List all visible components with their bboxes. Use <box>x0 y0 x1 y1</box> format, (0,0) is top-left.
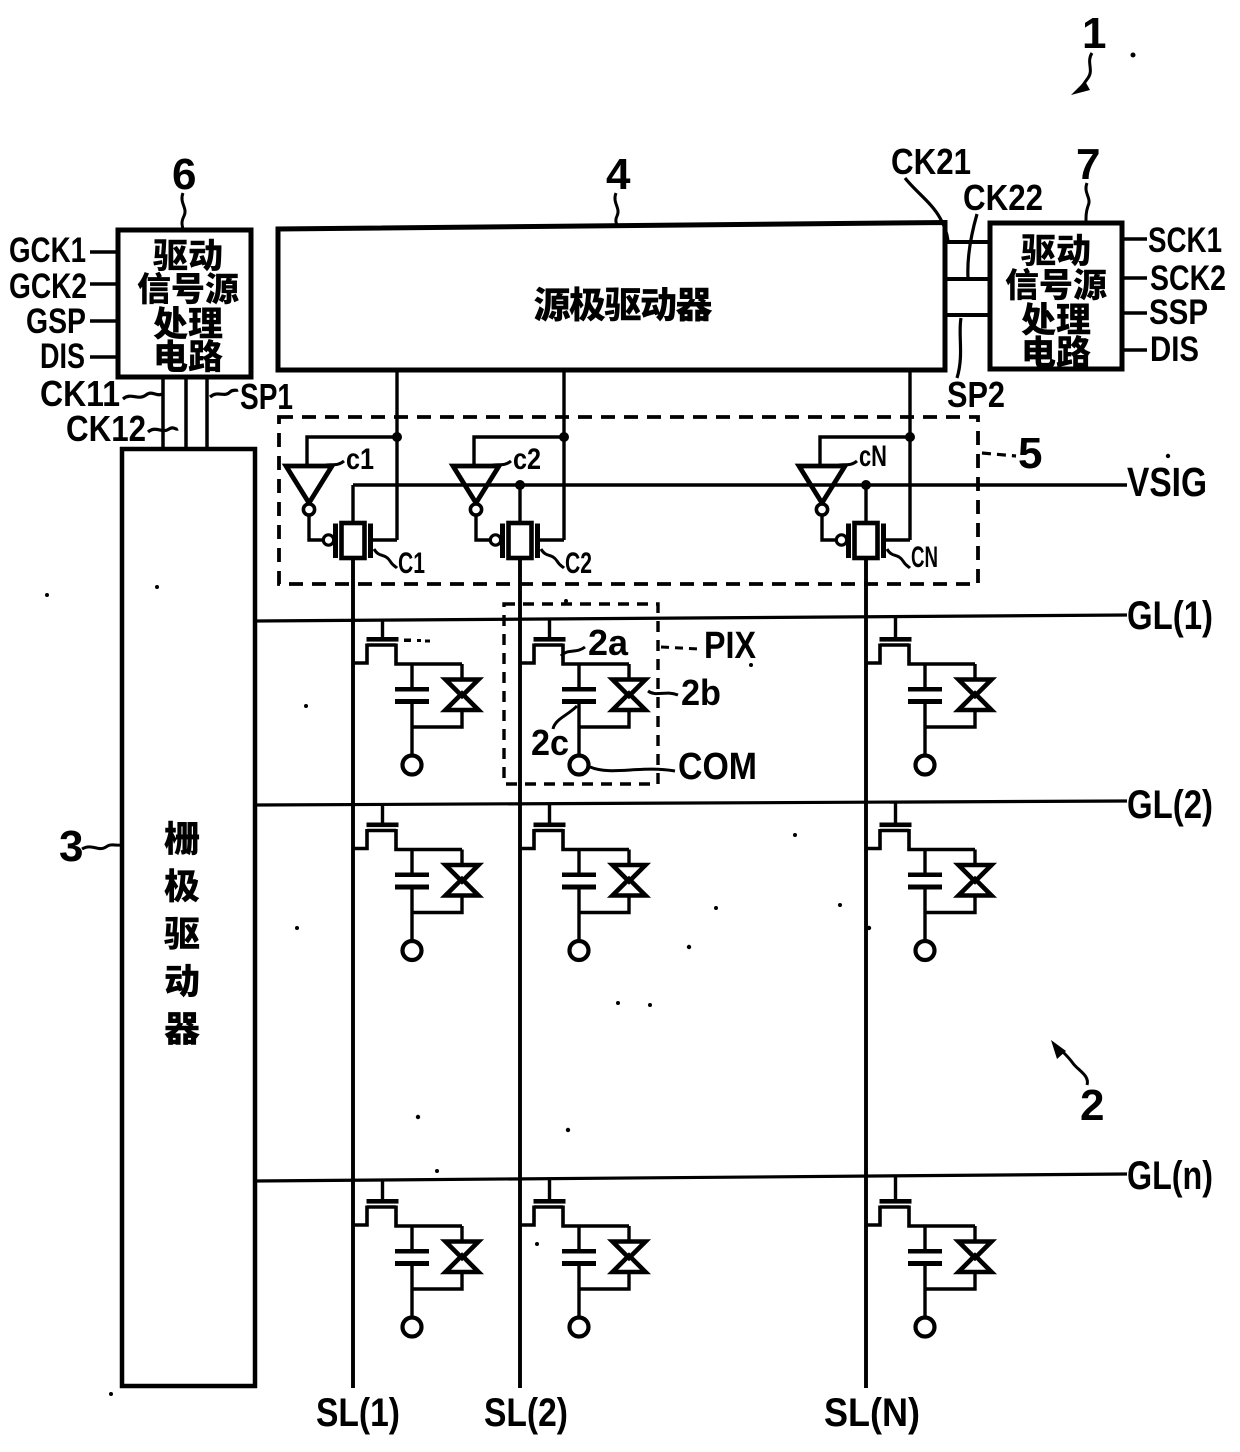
inverter buffer cN triangle <box>799 466 845 503</box>
storage cap P21 bottom lead <box>410 890 413 941</box>
pixel TFT P12 gate stub <box>548 618 551 638</box>
switch c2 gate bubble <box>490 535 500 545</box>
pixel TFT P1N source wire <box>866 644 880 664</box>
svg-text:SP2: SP2 <box>947 374 1005 415</box>
leader from 7 to U7 <box>1086 183 1089 221</box>
pixel TFT PnN channel bar <box>880 1205 909 1208</box>
pixel TFT P11 channel bar <box>367 643 396 646</box>
source driver U4 (box 4) <box>278 223 945 371</box>
pixel TFT P11 gate bar <box>367 637 399 642</box>
storage cap P1N bottom plate <box>908 699 942 704</box>
storage cap P1N top lead <box>923 664 926 687</box>
source line SL(N) <box>864 558 868 1388</box>
inverter c1 output bubble <box>303 504 314 515</box>
svg-text:C1: C1 <box>398 547 425 580</box>
analog switch C1 left bar <box>333 524 338 559</box>
svg-text:1: 1 <box>1082 9 1106 58</box>
liquid crystal P11 lower triangle <box>446 694 479 711</box>
svg-text:6: 6 <box>172 150 196 199</box>
wire from U4 to sampler c2 <box>562 370 565 540</box>
pixel TFT P1N drain wire <box>909 644 975 665</box>
liquid crystal P21 top lead <box>460 850 463 864</box>
inverter cN output bubble <box>816 504 827 515</box>
leader C1 <box>374 549 397 568</box>
svg-text:3: 3 <box>59 822 83 871</box>
svg-text:DIS: DIS <box>1150 330 1199 369</box>
leader CN <box>887 549 910 568</box>
analog switch CN right bar <box>881 524 886 559</box>
svg-text:GCK2: GCK2 <box>9 267 87 306</box>
U4 text <box>534 287 570 322</box>
svg-text:CK12: CK12 <box>66 408 146 449</box>
storage cap P22 top lead <box>577 850 580 873</box>
COM terminal Pn2 <box>570 1318 589 1337</box>
leader from 4 to U4 <box>615 193 618 226</box>
wire inverter to switch gate c2 <box>476 515 489 540</box>
U7 text line1 <box>1021 234 1055 266</box>
leader CK11 <box>123 393 162 399</box>
node dot c1 drive <box>392 432 402 442</box>
svg-text:2a: 2a <box>588 622 629 663</box>
U3 text vertical <box>164 821 199 855</box>
pixel TFT P21 channel bar <box>367 829 396 832</box>
svg-text:CN: CN <box>911 541 938 574</box>
U6 text line1 <box>153 239 187 271</box>
wire VSIG to switch C2 <box>518 485 521 523</box>
inverter c2 output bubble <box>470 504 481 515</box>
pixel TFT P12 gate bar <box>534 637 566 642</box>
analog switch CN left bar <box>846 524 851 559</box>
pin SSP lead <box>1122 311 1147 315</box>
storage cap Pn1 top plate <box>395 1249 429 1254</box>
svg-text:COM: COM <box>678 746 757 788</box>
liquid crystal Pn1 lower triangle <box>446 1256 479 1273</box>
liquid crystal P1N lower triangle <box>959 694 992 711</box>
svg-text:c2: c2 <box>513 443 541 476</box>
storage cap P21 top plate <box>395 873 429 878</box>
storage cap P12 top plate <box>562 687 596 692</box>
storage cap P22 top plate <box>562 873 596 878</box>
liquid crystal P22 top lead <box>627 850 630 864</box>
storage cap PnN bottom plate <box>908 1261 942 1266</box>
U7 text line3 <box>1022 302 1056 336</box>
pixel TFT P12 drain wire <box>563 644 629 665</box>
storage cap P21 bottom plate <box>395 885 429 890</box>
analog switch CN channel box <box>855 523 878 558</box>
svg-text:SL(2): SL(2) <box>484 1391 568 1435</box>
storage cap P12 bottom lead <box>577 704 580 755</box>
liquid crystal Pn2 top lead <box>627 1226 630 1240</box>
pixel TFT P21 gate bar <box>367 823 399 828</box>
COM terminal P1N <box>916 756 935 775</box>
liquid crystal P12 upper triangle <box>613 680 646 697</box>
pixel TFT Pn2 channel bar <box>534 1205 563 1208</box>
pixel TFT Pn1 channel bar <box>367 1205 396 1208</box>
pixel TFT P21 source wire <box>353 829 367 849</box>
pixel TFT P2N drain wire <box>909 829 975 850</box>
liquid crystal P21 bottom lead <box>412 898 462 913</box>
leader from 3 to U3 <box>82 845 120 849</box>
COM terminal P22 <box>570 941 589 960</box>
liquid crystal P22 bottom lead <box>579 898 629 913</box>
node dot c2 drive <box>559 432 569 442</box>
feedback wire c2 <box>474 437 564 465</box>
inverter buffer c2 triangle <box>453 466 499 503</box>
liquid crystal P11 top lead <box>460 664 463 678</box>
bus rung CK21 <box>945 240 990 244</box>
svg-text:CK21: CK21 <box>891 141 971 182</box>
pin DIS lead <box>90 355 117 359</box>
bus wire SP1 <box>205 377 209 449</box>
pixel TFT P12 source wire <box>520 644 534 664</box>
leader dashes to PIX <box>661 647 699 649</box>
speck marks <box>404 639 430 643</box>
liquid crystal P1N upper triangle <box>959 680 992 697</box>
bus wire CK12 <box>184 377 188 449</box>
leader 2a <box>561 647 585 656</box>
svg-text:GL(1): GL(1) <box>1127 594 1213 638</box>
pixel TFT P2N gate stub <box>894 801 897 823</box>
liquid crystal P1N bottom lead <box>925 712 975 727</box>
svg-text:DIS: DIS <box>40 337 85 376</box>
wire switch CN to drive line <box>886 538 910 541</box>
leader c2 <box>489 461 511 467</box>
storage cap P11 top lead <box>410 664 413 687</box>
analog switch C2 channel box <box>509 523 532 558</box>
storage cap P22 bottom plate <box>562 885 596 890</box>
storage cap P1N top plate <box>908 687 942 692</box>
wire VSIG to switch CN <box>864 485 867 523</box>
pixel TFT P22 source wire <box>520 829 534 849</box>
storage cap P12 top lead <box>577 664 580 687</box>
storage cap P22 bottom lead <box>577 890 580 941</box>
leader cN <box>835 461 857 467</box>
pixel dashed box PIX <box>504 604 658 784</box>
leader SP2 <box>957 318 961 378</box>
leader 2c <box>553 706 577 729</box>
pixel TFT Pn1 gate bar <box>367 1199 399 1204</box>
leader CK22 <box>968 214 977 278</box>
pixel TFT Pn1 drain wire <box>396 1206 462 1227</box>
U6 text line2 <box>138 272 170 305</box>
storage cap P2N top plate <box>908 873 942 878</box>
pixel TFT P22 gate bar <box>534 823 566 828</box>
bus rung SP2 <box>945 313 990 317</box>
wire inverter to switch gate cN <box>822 515 835 540</box>
pixel TFT PnN source wire <box>866 1206 880 1226</box>
pin GCK2 lead <box>90 282 117 286</box>
pixel TFT P22 gate stub <box>548 803 551 824</box>
liquid crystal P2N top lead <box>973 850 976 864</box>
VSIG line <box>353 483 1127 486</box>
COM terminal P21 <box>403 941 422 960</box>
storage cap P2N bottom lead <box>923 890 926 941</box>
svg-text:PIX: PIX <box>704 625 757 667</box>
liquid crystal P22 upper triangle <box>613 865 646 882</box>
pin SCK1 lead <box>1122 237 1147 241</box>
pixel TFT Pn1 gate stub <box>381 1179 384 1200</box>
liquid crystal Pn1 top lead <box>460 1226 463 1240</box>
pixel TFT P11 gate stub <box>381 619 384 638</box>
storage cap Pn2 bottom lead <box>577 1266 580 1317</box>
liquid crystal P2N lower triangle <box>959 879 992 896</box>
leader 2b <box>648 691 678 695</box>
analog switch C1 right bar <box>368 524 373 559</box>
leader from 6 to U6 <box>182 193 185 229</box>
U7 text line2 <box>1006 268 1038 301</box>
liquid crystal PnN top lead <box>973 1226 976 1240</box>
svg-text:VSIG: VSIG <box>1127 459 1207 505</box>
liquid crystal P1N top lead <box>973 664 976 678</box>
pixel TFT P12 channel bar <box>534 643 563 646</box>
wire from U4 to sampler c1 <box>395 370 398 540</box>
svg-text:2: 2 <box>1080 1081 1104 1130</box>
liquid crystal PnN bottom lead <box>925 1274 975 1289</box>
liquid crystal P2N upper triangle <box>959 865 992 882</box>
wire from U4 to sampler cN <box>908 370 911 540</box>
liquid crystal P11 upper triangle <box>446 680 479 697</box>
storage cap Pn2 top lead <box>577 1226 580 1249</box>
svg-text:SL(1): SL(1) <box>316 1391 400 1435</box>
storage cap Pn1 bottom plate <box>395 1261 429 1266</box>
storage cap P11 bottom lead <box>410 704 413 755</box>
storage cap Pn2 top plate <box>562 1249 596 1254</box>
gate line GL(2) <box>255 801 1127 805</box>
svg-text:C2: C2 <box>565 547 592 580</box>
feedback wire c1 <box>307 437 397 465</box>
gate line GL(n) <box>255 1174 1127 1181</box>
wire switch C2 to drive line <box>540 538 564 541</box>
drive-signal processing circuit U6 (box 6) <box>118 230 251 377</box>
U6 text line4 <box>157 339 188 372</box>
pixel TFT Pn2 gate bar <box>534 1199 566 1204</box>
U6 text line3 <box>154 306 188 340</box>
node dot cN drive <box>905 432 915 442</box>
storage cap P2N bottom plate <box>908 885 942 890</box>
gate driver U3 (box 3) <box>122 449 255 1386</box>
pixel TFT P22 channel bar <box>534 829 563 832</box>
storage cap P2N top lead <box>923 850 926 873</box>
COM terminal P11 <box>403 756 422 775</box>
svg-text:7: 7 <box>1076 140 1100 189</box>
pixel TFT P2N source wire <box>866 829 880 849</box>
COM terminal P2N <box>916 941 935 960</box>
wire inverter to switch gate c1 <box>309 515 322 540</box>
leader CK21 <box>905 178 948 241</box>
storage cap P11 top plate <box>395 687 429 692</box>
U7 text line4 <box>1025 335 1056 368</box>
gate line GL(1) <box>255 615 1127 621</box>
liquid crystal PnN upper triangle <box>959 1242 992 1259</box>
wire switch C1 to drive line <box>373 538 397 541</box>
node dot on VSIG at C2 <box>515 480 525 490</box>
liquid crystal P12 top lead <box>627 664 630 678</box>
pixel TFT P21 gate stub <box>381 803 384 823</box>
svg-text:SSP: SSP <box>1149 293 1208 332</box>
pixel TFT P1N gate stub <box>894 616 897 638</box>
pixel TFT PnN drain wire <box>909 1206 975 1227</box>
bus wire CK11 <box>161 377 165 449</box>
svg-text:4: 4 <box>606 150 631 199</box>
switch cN gate bubble <box>836 535 846 545</box>
analog switch C2 left bar <box>500 524 505 559</box>
drive-signal processing circuit U7 (box 7) <box>990 223 1122 369</box>
COM terminal Pn1 <box>403 1318 422 1337</box>
leader dashes to 5 <box>982 453 1016 456</box>
svg-text:GCK1: GCK1 <box>9 231 86 270</box>
pixel TFT Pn1 source wire <box>353 1206 367 1226</box>
storage cap PnN top plate <box>908 1249 942 1254</box>
liquid crystal P11 bottom lead <box>412 712 462 727</box>
pixel TFT P2N channel bar <box>880 829 909 832</box>
svg-text:GL(2): GL(2) <box>1127 783 1213 827</box>
pixel TFT PnN gate bar <box>880 1199 912 1204</box>
storage cap P12 bottom plate <box>562 699 596 704</box>
storage cap Pn1 bottom lead <box>410 1266 413 1317</box>
svg-text:2b: 2b <box>681 672 721 713</box>
pixel TFT Pn2 drain wire <box>563 1206 629 1227</box>
svg-text:SL(N): SL(N) <box>824 1391 920 1435</box>
pixel TFT P2N gate bar <box>880 823 912 828</box>
svg-text:2c: 2c <box>531 722 569 763</box>
storage cap P21 top lead <box>410 850 413 873</box>
bus rung CK22 <box>945 277 990 281</box>
svg-text:CK22: CK22 <box>963 177 1043 218</box>
sampling circuit dashed box 5 <box>279 417 978 584</box>
svg-text:c1: c1 <box>346 443 374 476</box>
arrow from 2 to pixel array <box>1051 1040 1087 1085</box>
COM terminal PnN <box>916 1318 935 1337</box>
leader SP1 <box>210 390 238 397</box>
pixel TFT P11 source wire <box>353 644 367 664</box>
svg-text:cN: cN <box>859 440 887 473</box>
feedback wire cN <box>820 437 910 465</box>
pixel TFT PnN gate stub <box>894 1175 897 1200</box>
storage cap PnN bottom lead <box>923 1266 926 1317</box>
svg-text:GSP: GSP <box>26 302 86 341</box>
pixel TFT P1N gate bar <box>880 637 912 642</box>
liquid crystal P12 lower triangle <box>613 694 646 711</box>
liquid crystal Pn2 bottom lead <box>579 1274 629 1289</box>
pin DIS2 lead <box>1122 348 1147 352</box>
liquid crystal Pn1 bottom lead <box>412 1274 462 1289</box>
liquid crystal Pn2 lower triangle <box>613 1256 646 1273</box>
COM terminal P12 <box>570 756 589 775</box>
liquid crystal Pn2 upper triangle <box>613 1242 646 1259</box>
pixel TFT Pn2 source wire <box>520 1206 534 1226</box>
VSIG corner into switch C1 <box>351 485 354 523</box>
svg-text:SCK1: SCK1 <box>1148 221 1222 260</box>
inverter buffer c1 triangle <box>286 466 332 503</box>
storage cap Pn1 top lead <box>410 1226 413 1249</box>
analog switch C2 right bar <box>535 524 540 559</box>
pixel TFT P11 drain wire <box>396 644 462 665</box>
leader CK12 <box>148 428 178 432</box>
leader c1 <box>322 461 344 467</box>
pin SCK2 lead <box>1122 276 1147 280</box>
liquid crystal PnN lower triangle <box>959 1256 992 1273</box>
source line SL(2) <box>518 558 522 1388</box>
leader C2 <box>541 549 564 568</box>
liquid crystal P12 bottom lead <box>579 712 629 727</box>
leader COM <box>590 767 675 771</box>
liquid crystal P22 lower triangle <box>613 879 646 896</box>
liquid crystal P21 upper triangle <box>446 865 479 882</box>
pixel TFT P22 drain wire <box>563 829 629 850</box>
storage cap P11 bottom plate <box>395 699 429 704</box>
switch c1 gate bubble <box>323 535 333 545</box>
pin GSP lead <box>90 319 117 323</box>
storage cap PnN top lead <box>923 1226 926 1249</box>
analog switch C1 channel box <box>342 523 365 558</box>
pixel TFT P21 drain wire <box>396 829 462 850</box>
arrow from 1 to panel <box>1071 53 1092 95</box>
storage cap Pn2 bottom plate <box>562 1261 596 1266</box>
svg-text:GL(n): GL(n) <box>1127 1154 1213 1198</box>
liquid crystal Pn1 upper triangle <box>446 1242 479 1259</box>
source line SL(1) <box>351 558 355 1388</box>
storage cap P1N bottom lead <box>923 704 926 755</box>
pixel TFT Pn2 gate stub <box>548 1178 551 1200</box>
svg-text:SP1: SP1 <box>240 376 293 417</box>
liquid crystal P2N bottom lead <box>925 898 975 913</box>
liquid crystal P21 lower triangle <box>446 879 479 896</box>
node dot on VSIG at CN <box>861 480 871 490</box>
pin GCK1 lead <box>90 250 117 254</box>
pixel TFT P1N channel bar <box>880 643 909 646</box>
svg-text:5: 5 <box>1018 429 1042 478</box>
